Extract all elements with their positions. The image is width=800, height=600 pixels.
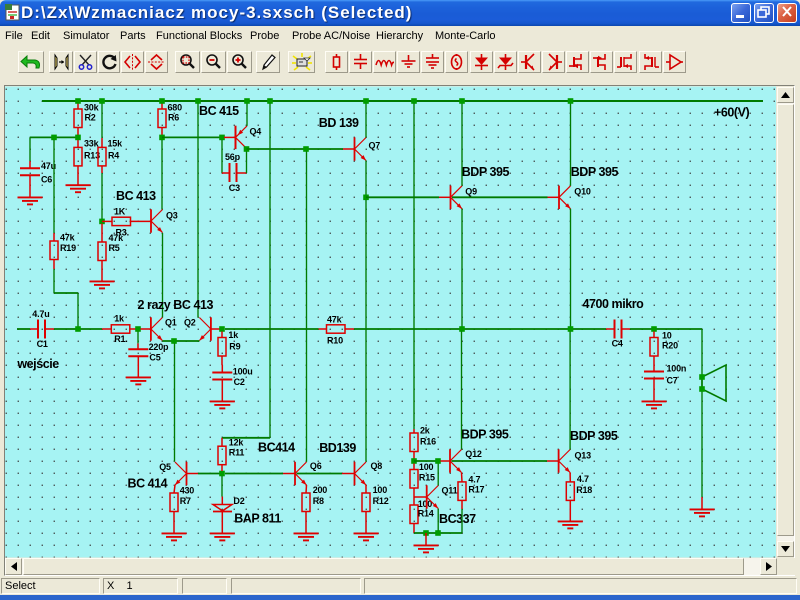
diode D2 [213,505,232,512]
transistor Q1 [151,317,163,340]
wire Q5 base lead [187,473,199,475]
resistor R11 [218,446,226,465]
wire node to C3 left [221,140,223,173]
junction rail/R6 [159,98,165,104]
resistor R12 [362,493,370,512]
junction driver node [363,195,369,201]
transistor Q4 [236,126,248,149]
transistor Q8 [355,462,367,485]
capacitor C1 [38,320,45,339]
wire C4 left lead [606,328,615,330]
junction input/R19 node [75,326,81,332]
junction output/Q9e/Q12c [459,326,465,332]
transistor Q9 [451,186,463,209]
wire Q11 base lead [414,496,427,498]
wire to R19 node [54,328,102,330]
wire Q3 emitter down to Q1 collector [162,233,164,318]
junction R16/R15 node [411,458,417,464]
junction bias node R11/D2/Q6 [219,471,225,477]
wire R19 bottom lead [53,260,55,270]
wire R8 to ground [305,512,307,522]
transistor Q2 [199,317,211,340]
wire R11 top lead [221,438,223,446]
resistor R5 [98,242,106,261]
wire C7 top lead [653,365,655,372]
junction y149/Q6-collector tap [303,146,309,152]
transistor Q10 [559,186,571,209]
resistor R14 [410,505,418,524]
ground bottom rail [414,533,439,552]
wire R15-R14 link [413,488,415,505]
wire Q7 collector to rail [365,104,367,138]
capacitor C2 [212,373,232,380]
wire R14 bottom lead [413,524,415,534]
wire D2 cathode to ground [221,512,223,522]
wire driver node to output bases [366,196,439,198]
wire Q9-Q10 base link [452,196,548,198]
wire to speaker corner [630,328,702,330]
wire Q6 collector up [306,152,308,462]
wire tail down to Q5 [174,344,176,462]
wire R1 right lead [130,328,138,330]
wire emitter link [162,340,199,342]
junction rail/R2 [75,98,81,104]
resistor R19 [50,241,58,260]
junction rail/R4 [99,98,105,104]
wire output row [225,328,319,330]
junction R2/R13 node [75,135,81,141]
ground under R5 [90,269,115,288]
transistor Q6 [295,462,307,485]
wire R15 top lead [413,464,415,470]
resistor R2 [74,109,82,128]
wire R18 to ground [569,500,571,509]
wire node to D2 [221,476,223,497]
wire C2 top lead [221,365,223,373]
wire bias row right [225,473,283,475]
transistor Q3 [151,209,163,232]
ground under R12 [354,521,379,540]
wire C2 bottom lead [221,380,223,390]
resistor R3 [112,217,131,225]
wire R17 to bottom rail [461,509,463,533]
wire R13 to ground [77,166,79,173]
schematic canvas background [5,87,776,558]
wire Q13 base lead [547,460,559,462]
vertical scrollbar [777,87,794,557]
wire R19 L to input node [54,292,78,294]
junction rail/Q7 collector [363,98,369,104]
junction output/Q10e/Q13c [568,326,574,332]
wire R10 right lead [345,328,354,330]
transistor Q11 [427,485,439,508]
resistor R4 [98,147,106,166]
wire down to input row [77,293,79,329]
wire Q4 emitter to rail [246,104,248,126]
junction bottom rail ground tap [423,530,429,536]
junction rail/Q4 emitter [244,98,250,104]
wire Q10 collector to rail [570,104,572,186]
wire driver node down to Q8 collector [365,200,367,462]
wire R6 top lead [161,104,163,110]
wire C5 top lead [137,343,139,349]
wire Q11 emitter down [437,509,439,531]
ground under C5 [126,365,151,384]
wire Q10 emitter to output row [570,209,572,327]
junction R20 tap [651,326,657,332]
resistor R8 [302,493,310,512]
junction bottom rail Q11 emitter [435,530,441,536]
wire R5 top lead [101,224,103,243]
resistor R9 [218,338,226,357]
resistor R20 [650,338,658,357]
transistor Q7 [355,137,367,160]
ground under D2 [210,521,235,540]
wire R17 bottom lead [461,500,463,509]
transistor Q12 [450,449,462,472]
transistor Q5 [175,462,187,485]
wire Q8 base lead [342,473,355,475]
wire R10 left lead [319,328,327,330]
wire Q7 base lead [343,148,355,150]
wire R4 to node R3 [101,173,103,220]
junction R3/R4/R5 node [99,219,105,225]
wire Q6 base lead [283,473,295,475]
wire R2 top lead [77,104,79,110]
wire corner down to speaker [701,329,703,497]
junction rail/Q9 collector [459,98,465,104]
wire node to C5 [137,332,139,344]
wire C6 top lead [29,161,31,168]
ground under C2 [210,389,235,408]
wire R16 bottom lead [413,452,415,459]
ground under R18 [558,509,583,528]
wire R19 top lead [53,233,55,241]
wire node row y137 [30,136,78,138]
capacitor C5 [128,349,148,356]
wire R16 top lead [413,429,415,433]
wire base row to R11 node [198,473,220,475]
transistor Q13 [559,449,571,472]
resistor R15 [410,470,418,489]
wire R9 top lead [221,332,223,338]
wire bias to Q12 base row [414,460,437,462]
wire R6 bottom lead [161,128,163,136]
wire R9 bottom lead [221,356,223,365]
junction R6/Q3/Q4-base node [159,135,165,141]
net +60V power rail [42,100,763,102]
horizontal scrollbar [5,558,777,575]
wire Q6 emitter lead [305,485,308,493]
junction rail/Q2 collector [195,98,201,104]
resistor R10 [327,325,346,333]
wire R1 left lead [102,328,111,330]
wire C3 left lead [222,172,230,174]
status bar [0,578,800,595]
resistor R17 [458,482,466,501]
resistor R7 [170,493,178,512]
wire Q12 collector up [461,332,463,450]
resistor R18 [566,482,574,501]
resistor R1 [111,325,130,333]
wire R11 feed horizontal [222,437,270,439]
wire rail to R11 feed [269,104,271,438]
wire R4 top lead [101,138,103,147]
resistor R16 [410,433,418,452]
wire R13 top lead [77,140,79,148]
capacitor C6 [20,168,40,175]
capacitor C4 [615,320,622,339]
junction speaker + [699,374,705,380]
wire Q12 base lead [441,460,451,462]
wire C1 right lead [45,328,54,330]
junction rail/Q10 collector [568,98,574,104]
wire C5 bottom lead [137,356,139,365]
wire Q2 collector to rail [197,104,199,318]
wire C6 bottom lead [29,175,31,185]
wire R19 down [53,269,55,293]
ground under R7 [162,521,187,540]
capacitor C3 [230,163,237,182]
ground under R13 [66,173,91,192]
wire C3 to Q4 collector node [246,152,248,174]
wire Q4 base lead [224,136,236,138]
wire C1 left lead [30,328,38,330]
junction tail node [171,338,177,344]
wire C3 right lead [237,172,247,174]
wire D2 anode lead [221,497,223,505]
wire Q6-Q8 base link [297,473,343,475]
wire C7 bottom lead [653,379,655,390]
junction rail/R16 feed [411,98,417,104]
wire Q9 base lead [439,196,451,198]
wire output row mid [354,328,606,330]
wire R7 to ground [173,512,175,522]
wire Q13 collector up [569,332,571,450]
wire R5 to ground [101,261,103,270]
ground under C6 [18,185,43,204]
speaker LS1 [702,365,726,401]
wire Q2 base lead [211,328,220,330]
wire C4 right lead [622,328,631,330]
junction Q12 base node [435,458,441,464]
wire R20 bottom lead [653,356,655,365]
wire R12 to ground [365,512,367,522]
wire rail to R4 [101,104,103,139]
ground under R8 [294,521,319,540]
resistor R6 [158,109,166,128]
junction Q2 base/R9 node [219,326,225,332]
wire Q7 emitter down [365,161,367,196]
wire R3 left lead [102,220,112,222]
wire down to Q3 collector [161,140,163,210]
wire R2 bottom lead [77,128,79,136]
wire Q12-Q13 base link [452,460,548,462]
wire to C6 [29,137,31,161]
wire Q13 emitter lead [569,473,571,482]
wire R4 bottom lead [101,166,103,173]
junction Q4 base / C3 node [219,135,225,141]
wire node to Q4 base [162,136,222,138]
junction speaker - [699,386,705,392]
wire R11 bottom lead [221,465,223,471]
ground under speaker [690,497,715,516]
wire Q8 emitter lead [365,485,367,493]
wire Q11 collector up [437,464,439,486]
net input row [17,328,30,330]
wire Q10 base lead [548,196,560,198]
wire Q9 collector to rail [461,104,463,186]
capacitor C7 [644,372,664,379]
junction Q4 collector node [244,146,250,152]
wire bottom rail [414,532,462,534]
wire Q1 base lead [141,328,151,330]
wire R20 top lead [653,332,655,338]
wire rail to R16 [413,104,415,430]
junction R19 tap [51,135,57,141]
wire collector row y149 [247,148,344,150]
wire Q5 emitter lead [174,485,175,493]
junction rail/R11 feed [267,98,273,104]
wire Q12 emitter lead [461,473,464,482]
wire Q9 emitter to output row [461,209,463,327]
junction R1/C5/Q1 base node [135,326,141,332]
wire R19 top [53,140,55,233]
ground under C7 [642,389,667,408]
resistor R13 [74,147,82,166]
wire R3 right lead to Q3 base [130,220,152,222]
